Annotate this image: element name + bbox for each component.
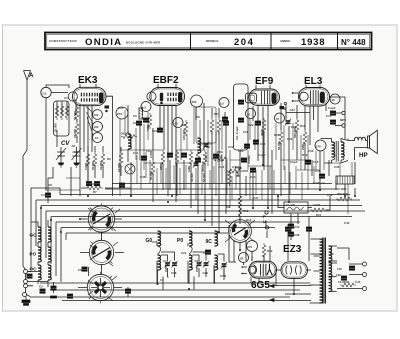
circled value 55 <box>246 109 256 119</box>
extra vertical wires density band <box>120 107 352 214</box>
cap C3 <box>51 282 57 298</box>
cap C1 <box>27 274 32 278</box>
svg-text:50.000: 50.000 <box>121 132 130 136</box>
circled value 100 b <box>93 122 103 132</box>
bottom bus wires <box>30 283 310 297</box>
resistor chain left of pins <box>72 105 79 148</box>
circled value 270 a <box>116 107 128 119</box>
ground bottom left <box>22 297 30 306</box>
tuned circuit group P0 <box>177 231 209 284</box>
svg-text:R11: R11 <box>316 213 322 217</box>
svg-text:C34: C34 <box>203 251 209 255</box>
svg-text:100.000: 100.000 <box>182 129 186 140</box>
circled value 90 <box>173 118 183 128</box>
svg-text:25: 25 <box>240 257 244 261</box>
S grid marker <box>284 102 311 112</box>
svg-text:R9: R9 <box>226 205 230 209</box>
misc vertical drops to buses <box>48 101 355 294</box>
svg-text:30.000: 30.000 <box>190 173 194 182</box>
svg-text:TS: TS <box>330 252 334 256</box>
svg-text:C28: C28 <box>181 123 187 127</box>
capacitor C30 <box>253 140 265 146</box>
EK3 osc coil shield box <box>54 101 70 136</box>
svg-text:C36: C36 <box>334 165 340 169</box>
resistor bank right of EK3: R 5.000 <box>84 152 90 170</box>
svg-text:C37: C37 <box>253 196 259 200</box>
caps under bank <box>86 182 99 186</box>
circled value 270 b <box>315 140 326 151</box>
capacitor C16 <box>313 169 326 185</box>
svg-text:C38: C38 <box>294 233 300 237</box>
svg-text:130: 130 <box>336 273 341 277</box>
svg-text:C36: C36 <box>140 175 146 179</box>
svg-text:3.000: 3.000 <box>313 203 321 207</box>
big coil can 3 <box>87 272 113 303</box>
variable capacitor CV1 <box>56 147 66 167</box>
svg-text:A2: A2 <box>72 144 76 148</box>
cap C14 <box>330 120 335 124</box>
circled value 260 <box>191 95 203 107</box>
svg-text:250.000: 250.000 <box>337 192 348 196</box>
svg-text:C15: C15 <box>313 160 319 164</box>
power transformer <box>310 238 338 304</box>
svg-text:C18: C18 <box>171 271 177 275</box>
resistor R11 3.000 <box>310 203 326 217</box>
svg-text:55: 55 <box>247 113 251 117</box>
circled value 25 b <box>239 253 249 263</box>
caps above EZ3 <box>285 224 311 234</box>
EBF2 cluster resistors <box>159 150 200 172</box>
variable capacitor CV2 <box>72 147 82 167</box>
svg-text:CONSTRUCTEUR: CONSTRUCTEUR <box>49 39 77 43</box>
cap near ground <box>67 294 72 298</box>
terminal MP5 <box>335 111 346 127</box>
svg-text:C26: C26 <box>133 121 139 125</box>
svg-text:C8: C8 <box>48 183 52 187</box>
svg-text:6.000 cm: 6.000 cm <box>313 181 326 185</box>
resistor 50.000 c <box>277 130 283 150</box>
circled value 9,5 a <box>141 102 151 112</box>
resistor above 6G5 <box>239 186 249 224</box>
PU terminals <box>263 211 269 229</box>
resistor box R20 <box>336 176 354 201</box>
resistor 25.000 R7 <box>87 182 103 194</box>
svg-text:C9: C9 <box>160 278 164 282</box>
resistor R10 <box>260 118 266 136</box>
svg-text:C7,8: C7,8 <box>220 274 226 278</box>
output transformer <box>321 139 349 164</box>
svg-text:R20: R20 <box>341 187 347 191</box>
svg-text:C6: C6 <box>78 268 82 272</box>
svg-text:260: 260 <box>192 100 197 104</box>
cap C6 <box>78 267 87 272</box>
svg-text:9,5: 9,5 <box>220 102 224 106</box>
potentiometer Pot <box>226 144 256 179</box>
mid band tiny texts <box>133 149 308 179</box>
EK3 anode out wire <box>105 96 113 196</box>
right network of transformer <box>337 248 367 291</box>
svg-text:R7: R7 <box>93 190 97 194</box>
svg-text:5.000: 5.000 <box>204 154 208 162</box>
svg-text:R16: R16 <box>274 133 280 137</box>
svg-text:C24: C24 <box>181 251 187 255</box>
svg-text:EZ3: EZ3 <box>283 244 302 255</box>
svg-text:C13: C13 <box>326 114 332 118</box>
EL3 grid stubs <box>292 92 300 102</box>
svg-text:270: 270 <box>117 112 122 116</box>
svg-text:57: 57 <box>276 117 280 121</box>
tuned circuit group G0 <box>146 231 178 284</box>
svg-text:-15: -15 <box>94 136 99 140</box>
antenna A <box>23 71 31 267</box>
mid band fill wires <box>137 152 314 200</box>
lamp circle <box>125 164 135 174</box>
svg-text:A1: A1 <box>64 96 68 100</box>
trimmer C22 <box>285 119 297 129</box>
svg-text:C2: C2 <box>39 285 43 289</box>
svg-text:0,1μF: 0,1μF <box>232 165 240 169</box>
tiny scattered labels <box>48 96 350 282</box>
cap C2 <box>39 285 45 294</box>
svg-text:10.000: 10.000 <box>117 163 121 172</box>
antenna coils right column <box>48 220 51 287</box>
Int HP switch box <box>284 202 308 213</box>
mid band small caps <box>119 154 310 187</box>
svg-text:ANNEE: ANNEE <box>280 39 290 43</box>
svg-text:500.000: 500.000 <box>293 127 297 138</box>
svg-text:N° 448: N° 448 <box>341 38 366 47</box>
svg-text:25: 25 <box>332 98 336 102</box>
svg-text:50.000: 50.000 <box>149 171 153 180</box>
svg-text:400Ω: 400Ω <box>260 128 264 136</box>
svg-text:2MΩ: 2MΩ <box>301 143 305 150</box>
svg-text:270: 270 <box>247 245 252 249</box>
svg-text:R2: R2 <box>107 157 111 161</box>
svg-text:C5: C5 <box>133 114 137 118</box>
svg-text:5.000: 5.000 <box>84 162 88 170</box>
IF coil EK3 anode <box>128 105 131 162</box>
svg-text:C20: C20 <box>238 149 244 153</box>
tube EZ3 <box>281 262 308 279</box>
svg-text:EBF2: EBF2 <box>153 75 179 86</box>
big coil can 4 (osc) <box>229 217 252 244</box>
circled value 2,5 <box>41 87 51 97</box>
svg-text:270: 270 <box>316 145 321 149</box>
big coil can 1 <box>88 203 114 234</box>
svg-text:100: 100 <box>94 113 99 117</box>
MAIN SCHEMATIC <box>22 71 377 306</box>
resistor R17 <box>301 130 307 150</box>
svg-text:C40: C40 <box>344 221 350 225</box>
svg-text:C4: C4 <box>41 193 45 197</box>
resistor near 9,5 <box>139 108 143 119</box>
svg-text:MODELE: MODELE <box>206 39 218 43</box>
circled value 270 c <box>247 241 258 252</box>
svg-text:PO: PO <box>30 252 37 257</box>
tube EL3 <box>299 88 330 107</box>
speaker HP <box>348 130 377 160</box>
svg-text:50.000: 50.000 <box>91 161 95 170</box>
tube EF9 <box>246 89 280 105</box>
svg-text:R18: R18 <box>300 124 306 128</box>
capacitor C29 <box>248 121 261 127</box>
svg-text:2,5: 2,5 <box>42 91 46 95</box>
main horizontal bus wires <box>36 184 365 234</box>
svg-text:C32: C32 <box>219 165 225 169</box>
svg-text:0,5MΩ: 0,5MΩ <box>247 155 251 164</box>
resistor 50.000 <box>91 152 97 170</box>
svg-text:C12: C12 <box>287 137 293 141</box>
EL3 top cap 0,1uF <box>326 106 336 118</box>
resistor R3 <box>117 147 123 176</box>
svg-text:6G5: 6G5 <box>251 280 270 291</box>
resistor 7MO R15 <box>146 113 152 131</box>
svg-text:C19: C19 <box>294 225 300 229</box>
header box <box>45 33 372 50</box>
capacitor C26 <box>133 121 142 125</box>
svg-text:C26: C26 <box>203 271 209 275</box>
resistor 100.000 <box>182 120 188 140</box>
tube EBF2 <box>147 88 185 106</box>
svg-text:C35: C35 <box>152 240 158 244</box>
svg-text:25.000: 25.000 <box>73 129 77 138</box>
resistor bank right of EBF2 <box>210 118 228 134</box>
big coil can 2 <box>89 238 113 268</box>
resistor 20.000 <box>99 152 105 170</box>
svg-text:R6: R6 <box>196 115 200 119</box>
svg-text:GO: GO <box>30 233 38 238</box>
cap on bus C8b <box>125 287 130 297</box>
svg-text:100: 100 <box>94 125 99 129</box>
EF9 shield box <box>234 84 249 150</box>
circled value -15 <box>93 133 103 143</box>
svg-text:204: 204 <box>234 37 254 48</box>
tube 6G5 <box>241 261 276 278</box>
IF2 shield box <box>190 107 231 186</box>
grid top lines 6G5 <box>229 225 252 262</box>
svg-text:1938: 1938 <box>301 37 325 48</box>
diagonal stubs circles <box>88 208 255 301</box>
circled value 100 a <box>93 110 103 120</box>
left terminal strip <box>23 270 49 297</box>
svg-text:C20: C20 <box>243 130 249 134</box>
svg-text:R14: R14 <box>246 218 252 222</box>
svg-text:0,5μF: 0,5μF <box>290 160 298 164</box>
svg-text:110: 110 <box>337 267 342 271</box>
wires joining tubes top labels <box>80 84 320 90</box>
svg-text:C25: C25 <box>118 106 124 110</box>
antenna coils left column <box>30 222 42 284</box>
svg-text:P0: P0 <box>177 238 183 244</box>
EBF2 top caps <box>143 118 162 133</box>
svg-text:BOULOGNE-SUR-MER: BOULOGNE-SUR-MER <box>126 40 161 44</box>
svg-text:C31: C31 <box>133 151 139 155</box>
svg-text:C41: C41 <box>355 280 361 284</box>
svg-text:C47: C47 <box>290 108 296 112</box>
diagonal pin links <box>86 107 93 136</box>
svg-text:A: A <box>29 73 34 79</box>
svg-text:1.000: 1.000 <box>149 150 153 158</box>
svg-text:15.000Ω: 15.000Ω <box>338 280 350 284</box>
transformer secondary leads <box>62 285 311 302</box>
svg-text:9C: 9C <box>206 239 213 245</box>
svg-text:1MΩ: 1MΩ <box>187 165 191 172</box>
svg-text:C33: C33 <box>308 149 314 153</box>
svg-text:CH. 0,1μF: CH. 0,1μF <box>235 126 239 140</box>
svg-text:Int. HP: Int. HP <box>286 203 295 207</box>
svg-text:50.000: 50.000 <box>277 141 281 150</box>
left bus nest verticals <box>31 188 66 282</box>
svg-text:ONDIA: ONDIA <box>85 37 122 48</box>
circled value 57 <box>275 113 285 123</box>
svg-text:R19: R19 <box>302 153 308 157</box>
svg-text:C11: C11 <box>228 145 234 149</box>
wires EL3 to speaker <box>314 97 346 139</box>
EF9 pin cap <box>280 106 285 109</box>
svg-text:EK3: EK3 <box>78 75 98 86</box>
resistor R16 <box>293 118 299 138</box>
circled value 25 a <box>330 94 340 104</box>
tuned circuit group OC <box>203 231 227 284</box>
svg-text:OC: OC <box>30 267 38 272</box>
svg-text:HP: HP <box>359 152 368 159</box>
vertical wires from tubes down <box>76 100 326 208</box>
IF resistor diagonal <box>121 132 137 139</box>
tube EK3 <box>68 87 106 105</box>
svg-text:U: U <box>263 219 266 224</box>
extra horizontal links <box>45 144 340 190</box>
caps C19 C38 <box>288 219 299 240</box>
resistor 50.000 b <box>149 160 155 180</box>
resistor 300.000 <box>201 150 207 172</box>
svg-text:50.000: 50.000 <box>202 173 206 182</box>
antenna lead to coils <box>23 85 69 270</box>
svg-text:C29: C29 <box>248 123 254 127</box>
resistor right of 270 <box>262 243 272 259</box>
ground cap left of EF9 box <box>222 112 227 124</box>
svg-text:A2: A2 <box>74 150 78 154</box>
capacitor C4 <box>41 190 51 203</box>
svg-text:C39: C39 <box>327 193 333 197</box>
svg-text:R12: R12 <box>243 209 249 213</box>
circled value 9,5 b <box>219 98 229 108</box>
svg-text:20.000: 20.000 <box>99 161 103 170</box>
svg-text:EF9: EF9 <box>255 76 274 87</box>
svg-text:25.000: 25.000 <box>88 182 97 186</box>
svg-text:0,1μF: 0,1μF <box>328 106 336 110</box>
svg-text:50.000: 50.000 <box>73 111 77 120</box>
svg-text:CV: CV <box>61 141 70 147</box>
svg-text:0,1μF: 0,1μF <box>258 153 266 157</box>
